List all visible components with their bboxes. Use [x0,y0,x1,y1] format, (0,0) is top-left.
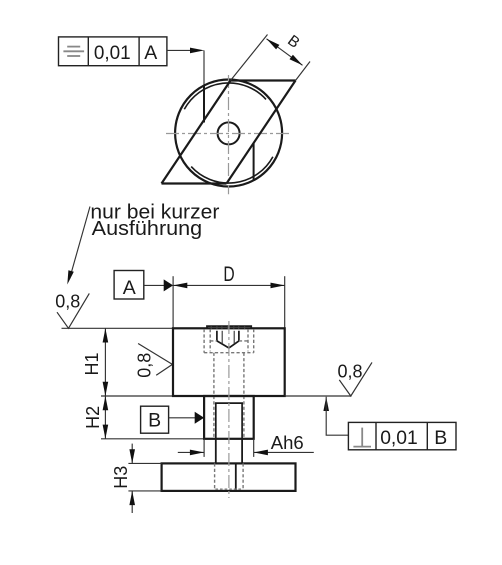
svg-text:0,01: 0,01 [94,42,131,64]
datum square B [141,406,169,433]
flat silhouette edge lower-right [253,144,255,181]
datum B filled triangle [195,412,204,424]
H3 extension line top [128,462,161,464]
top view center hole circle [218,122,240,144]
note leader arrowhead [67,270,74,284]
svg-text:H1: H1 [82,352,102,375]
H3 dimension line upper [131,444,133,464]
B dimension arrowhead upper [267,39,280,50]
Ah6 extension line left [203,439,205,457]
datum square A [114,271,144,300]
note leader wire [70,207,91,280]
leader projection line down to flat edge [203,50,205,87]
svg-text:A: A [123,277,136,299]
svg-text:H2: H2 [83,406,103,429]
screw cap protruding bracket [207,326,251,329]
hidden screw shank right [243,353,245,439]
svg-text:0,01: 0,01 [380,427,418,449]
H3 extension line bottom [128,490,161,492]
hex socket corner edges [222,331,234,344]
Ah6 dimension line right part [254,451,314,453]
feature control frame FCF2 (perpendicularity 0,01 B) [348,422,456,449]
screw cap knurl ticks [211,326,244,329]
boss inner bore right [241,403,243,439]
svg-text:A: A [144,42,157,64]
top view chamfer arc top [184,83,266,109]
perpendicularity symbol [353,428,371,447]
datum B leader wire [169,417,196,419]
dimension H1 line [104,328,106,396]
hidden counterbore right [253,329,255,353]
diamond flat left slanted edge [162,81,231,184]
boss bottom extension line left [101,438,204,440]
svg-text:B: B [148,410,161,432]
svg-text:H3: H3 [111,466,131,489]
visible screw in gap left [215,439,217,464]
top view horizontal centerline [166,133,292,135]
boss inner bore left [215,403,217,439]
top surface extension line [62,327,174,329]
svg-text:Ah6: Ah6 [271,432,304,453]
Ah6 arrowhead right pointing left [254,450,268,456]
hidden thread end in disc [215,488,242,490]
surface finish symbol 0,8 rotated on head left face [138,344,172,376]
hidden screw shank left [213,353,215,439]
hidden screw head face right stub [239,340,248,342]
hex socket cup visible [217,331,239,348]
disc outline [162,463,296,491]
dimension H2 line [104,396,106,439]
visible slot edge in disc [235,463,237,491]
FCF1 leader wire [167,49,196,51]
hidden screw head left [209,329,211,351]
svg-text:Ausführung: Ausführung [92,218,202,240]
perpendicularity leader arrowhead up [323,397,329,411]
Ah6 extension line right [253,439,255,457]
D arrowhead left [173,283,187,289]
head bottom extension line left [101,395,173,397]
B extension line left [231,35,268,81]
B dimension line [267,39,303,66]
top view vertical centerline [228,75,230,194]
H3 dimension line lower [131,491,133,513]
hidden screw head face left stub [210,340,217,342]
hidden counterbore left [203,329,205,353]
head bottom extension line right [285,395,352,397]
flat silhouette edge upper-left [203,86,205,123]
hidden screw head right [247,329,249,351]
top view chamfer arc bottom [191,157,273,183]
feature control frame FCF1 (symmetry 0,01 A) [59,37,167,66]
diamond flat top edge [231,79,296,81]
dimension D extension line right [284,276,286,328]
Ah6 arrowhead left pointing right [190,450,204,456]
D arrowhead right [271,283,285,289]
H2 arrowhead up [103,396,109,410]
diamond flat bottom edge [162,182,227,184]
boss outline [204,396,254,439]
dimension D extension line left [172,276,174,328]
hidden thread in disc right [242,463,244,489]
svg-text:0,8: 0,8 [55,291,80,311]
surface finish symbol 0,8 top-left [57,293,89,328]
visible screw in gap right [241,439,243,464]
hidden counterbore bottom [204,352,254,354]
H1 arrowhead up [103,328,109,342]
hidden thread in disc left [214,463,216,489]
diamond flat right slanted edge [227,81,296,184]
svg-text:B: B [434,427,447,449]
svg-text:0,8: 0,8 [338,361,363,381]
front view centerline [228,321,230,498]
perpendicularity leader wire [326,397,348,435]
surface finish symbol 0,8 right [339,362,372,396]
H3 arrowhead up [129,491,135,505]
dimension D line [173,284,285,286]
H2 arrowhead down [103,425,109,439]
Ah6 dimension line left part [178,451,204,453]
svg-text:0,8: 0,8 [135,353,155,378]
svg-text:D: D [223,263,234,286]
top view outer circle [175,80,282,187]
boss inner bore top [215,402,243,404]
datum A filled triangle [164,279,173,291]
FCF1 leader arrowhead [190,48,204,54]
B dimension arrowhead lower [290,55,303,66]
B extension line right [296,62,311,81]
datum A leader wire [144,284,166,286]
H3 arrowhead down [129,449,135,463]
H1 arrowhead down [103,382,109,396]
head outline [173,328,285,396]
symmetry symbol [63,47,84,56]
